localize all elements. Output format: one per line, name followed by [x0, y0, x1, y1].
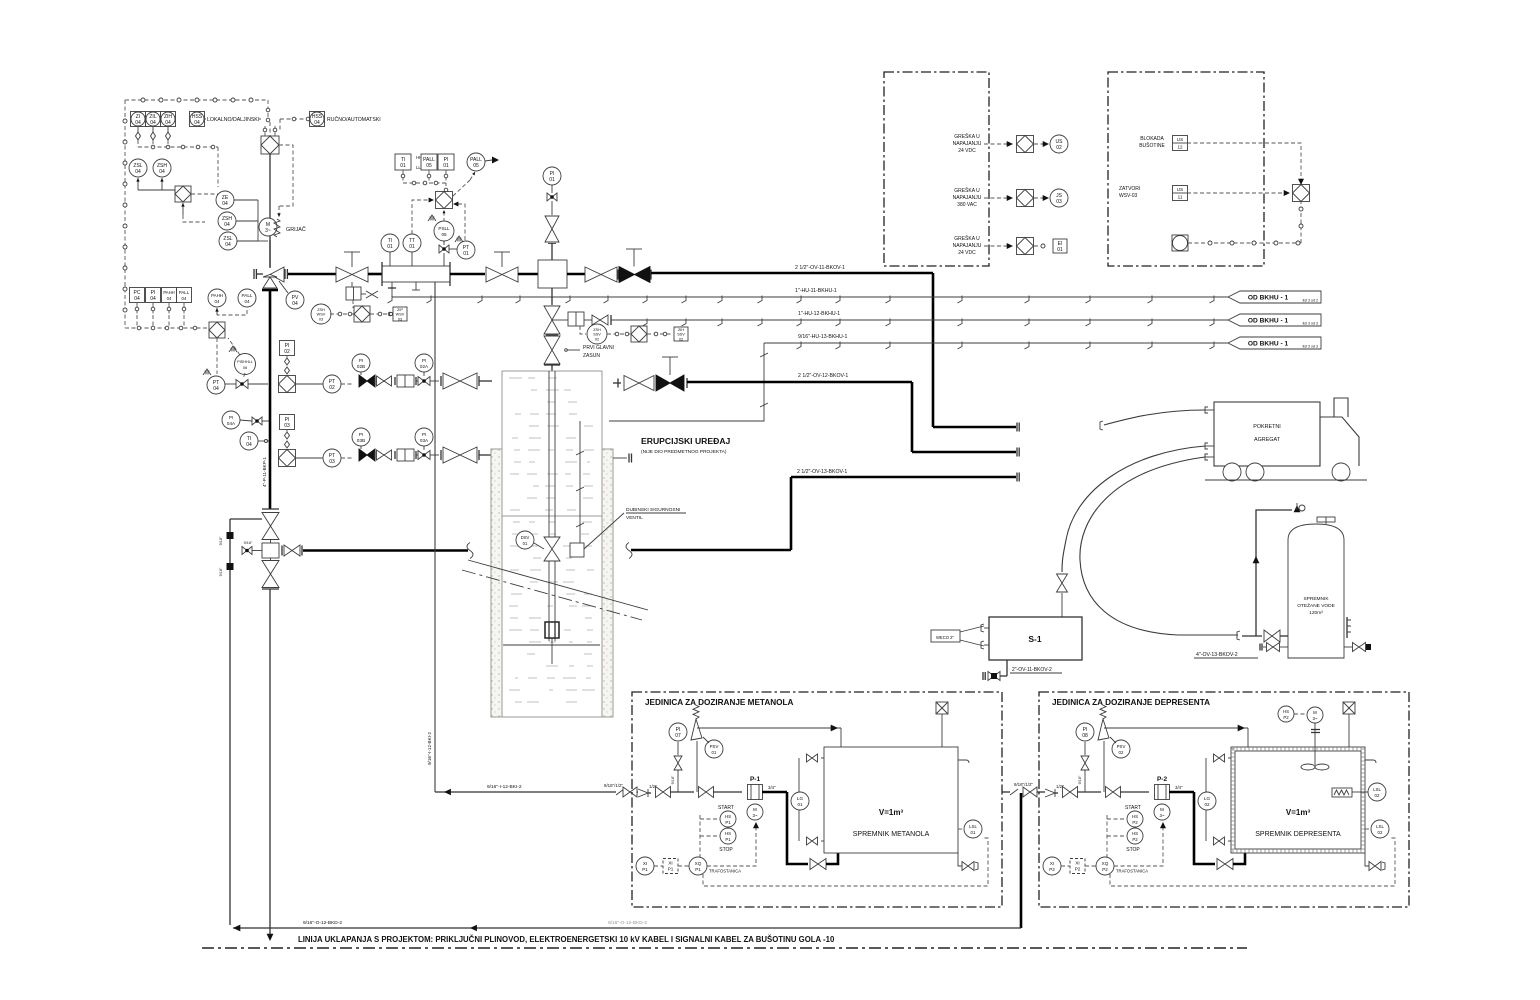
- svg-text:ZATVORI: ZATVORI: [1119, 186, 1140, 192]
- svg-text:HS: HS: [1283, 709, 1289, 714]
- shared instrument box2: [1172, 235, 1188, 251]
- drain line 9/16-O-12-BKD-2: [233, 927, 1021, 929]
- svg-text:02: 02: [284, 349, 290, 355]
- arrow into diamond bottom: [182, 203, 184, 215]
- svg-text:P2: P2: [1132, 820, 1138, 825]
- svg-text:US: US: [1177, 137, 1183, 142]
- lateral right of well: [626, 543, 632, 559]
- svg-text:PT: PT: [329, 379, 335, 385]
- svg-text:2"-OV-11-BKOV-2: 2"-OV-11-BKOV-2: [1012, 667, 1052, 673]
- PI stem DEPRESENTA: [1084, 770, 1086, 792]
- actuated valve OV-11 black: [619, 267, 650, 283]
- W flag 1: [428, 215, 436, 221]
- svg-text:SPREMNIK METANOLA: SPREMNIK METANOLA: [853, 831, 930, 838]
- svg-text:04: 04: [314, 120, 320, 126]
- svg-text:4"-OV-13-BKOV-2: 4"-OV-13-BKOV-2: [1196, 652, 1238, 658]
- svg-text:9/16": 9/16": [244, 541, 253, 545]
- svg-text:PI: PI: [1083, 727, 1088, 733]
- svg-text:01: 01: [712, 750, 717, 755]
- svg-text:SSV: SSV: [677, 333, 685, 337]
- pump discharge DEPRESENTA: [1169, 791, 1194, 794]
- svg-text:02: 02: [1119, 750, 1124, 755]
- svg-text:04: 04: [150, 120, 156, 126]
- svg-text:9/16": 9/16": [671, 775, 675, 784]
- svg-text:04: 04: [167, 296, 172, 301]
- annulus valve top: [227, 532, 234, 539]
- spool drain: [415, 282, 417, 290]
- instrument EI 01 square: [1053, 239, 1067, 253]
- svg-text:05: 05: [426, 163, 432, 169]
- master valve lower: [262, 561, 279, 588]
- hose 1: [1104, 410, 1205, 425]
- svg-text:PI: PI: [550, 171, 555, 177]
- injection line 9/16 vertical: [434, 282, 436, 792]
- control line vertical: [579, 421, 581, 543]
- arrows into ZSL ZSH: [137, 178, 139, 190]
- tank riser vent: [1256, 510, 1292, 636]
- svg-text:01: 01: [387, 244, 393, 250]
- W flag 2: [455, 236, 463, 242]
- svg-text:04: 04: [225, 242, 231, 248]
- svg-text:04A: 04A: [227, 421, 236, 426]
- panel box GRESKA: [884, 72, 989, 266]
- svg-text:HS: HS: [725, 831, 731, 836]
- svg-text:GRIJAČ: GRIJAČ: [286, 226, 306, 233]
- instrument PI 01 top: [543, 167, 561, 185]
- black valve row 03: [341, 457, 353, 459]
- svg-text:P2: P2: [1132, 837, 1138, 842]
- needle valve PI04A: [252, 417, 262, 425]
- capped stub row2 right: [613, 457, 627, 459]
- logic diamond alarm 1: [1017, 136, 1034, 153]
- instrument PT 03: [323, 449, 341, 467]
- signal chain to diamond: [1188, 242, 1301, 244]
- svg-text:01: 01: [797, 802, 803, 807]
- signal chain below squares: [402, 170, 404, 183]
- svg-text:DSV: DSV: [521, 535, 530, 540]
- tank overflow DEPRESENTA: [1365, 760, 1376, 763]
- svg-text:04: 04: [150, 296, 156, 302]
- instrument XI P1 square: [663, 859, 678, 874]
- svg-text:02A: 02A: [420, 364, 429, 369]
- vent flame arrestor DEPRESENTA: [1343, 702, 1355, 714]
- pump discharge METANOLA: [762, 791, 787, 794]
- svg-text:ZE: ZE: [222, 195, 229, 201]
- instrument squares PC PI PAHH PALL 04: [130, 288, 145, 303]
- svg-text:PSLL: PSLL: [438, 226, 450, 231]
- svg-text:list 3 od 3: list 3 od 3: [1303, 345, 1318, 349]
- vent flame arrestor METANOLA: [936, 702, 948, 714]
- svg-text:LOKALNO/DALJINSKI: LOKALNO/DALJINSKI: [207, 117, 259, 123]
- svg-text:P-2: P-2: [1157, 776, 1168, 783]
- offpage arrow PALL05: [485, 160, 492, 161]
- offpage arrow OD BKHU-1 line1: [1228, 291, 1321, 303]
- svg-text:PALL: PALL: [423, 157, 435, 163]
- instrument PT 02: [323, 375, 341, 393]
- instrument XI P1 circle: [636, 857, 654, 875]
- feed line 9/16-I-12-BKI-2: [435, 791, 616, 793]
- svg-text:W: W: [430, 217, 435, 223]
- svg-text:P1: P1: [725, 820, 731, 825]
- signal to JS 03: [1034, 197, 1044, 199]
- instrument PT 04: [207, 376, 225, 394]
- instrument ZSH WSV 03: [311, 304, 331, 324]
- line 9/16-HU-13-BKHU-1: [764, 342, 1228, 344]
- instrument PISHHLL 06: [235, 354, 256, 375]
- row1 right from well: [613, 382, 621, 384]
- svg-text:STOP: STOP: [1126, 847, 1140, 853]
- mixer shaft: [1314, 723, 1316, 765]
- tank SPREMNIK DEPRESENTA: [1231, 747, 1365, 853]
- hose 3: [1080, 457, 1238, 635]
- instrument ZI 04: [131, 112, 146, 127]
- manifold pipe segment 2: [450, 273, 485, 276]
- signal line left vertical: [124, 100, 126, 328]
- arrow PSLL into diamond: [443, 210, 445, 222]
- valve tank inlet DEPRESENTA: [1217, 859, 1233, 870]
- svg-text:02: 02: [1056, 145, 1062, 151]
- PRVI GLAVNI ZASUN upper valve: [551, 288, 553, 305]
- svg-text:120m³: 120m³: [1309, 610, 1323, 616]
- label LOKALNO/DALJINSKI: [206, 113, 259, 122]
- signal to US 02: [1034, 143, 1044, 145]
- instrument ZE 04: [216, 191, 234, 209]
- svg-text:02B: 02B: [357, 364, 365, 369]
- manifold pipe segment 3: [567, 273, 593, 276]
- instrument PT 01: [457, 241, 475, 259]
- signal XQ to motor METANOLA: [707, 826, 756, 866]
- svg-text:P2: P2: [1049, 867, 1055, 872]
- logic diamond alarm 2: [1017, 190, 1034, 207]
- svg-text:PI: PI: [151, 290, 156, 296]
- truck wheels: [1223, 463, 1241, 481]
- svg-text:XI: XI: [1050, 861, 1054, 866]
- svg-text:04: 04: [159, 169, 165, 175]
- signal US11 to diamond: [1187, 192, 1288, 194]
- svg-text:OD BKHU - 1: OD BKHU - 1: [1248, 340, 1289, 347]
- svg-text:TRAFOSTANICA: TRAFOSTANICA: [1116, 869, 1148, 874]
- svg-text:02: 02: [1204, 802, 1210, 807]
- svg-text:01: 01: [463, 251, 469, 257]
- svg-text:US: US: [1177, 187, 1183, 192]
- svg-text:01: 01: [409, 244, 415, 250]
- instrument HSS 04 lokalno: [190, 112, 205, 127]
- svg-text:ZIL: ZIL: [149, 114, 156, 120]
- signal stems into HSS diamond: [264, 126, 266, 136]
- instrument HS P2 mixer: [1278, 706, 1294, 722]
- svg-text:HS: HS: [1132, 814, 1138, 819]
- heater M 3~: [259, 218, 277, 236]
- svg-text:04: 04: [194, 120, 200, 126]
- manifold pipe segment 1: [288, 273, 336, 276]
- svg-text:01: 01: [443, 163, 449, 169]
- separator S-1: [989, 617, 1082, 660]
- svg-text:TI: TI: [247, 436, 251, 442]
- vent valve tank: [1299, 505, 1305, 511]
- svg-text:PALL: PALL: [470, 157, 482, 163]
- svg-text:01: 01: [523, 541, 528, 546]
- tubing: [548, 371, 550, 537]
- svg-text:02: 02: [329, 385, 335, 391]
- logic diamond row 02: [279, 376, 296, 393]
- gate valve feed DEPRESENTA 1: [1063, 787, 1078, 798]
- svg-text:NAPAJANJU: NAPAJANJU: [953, 141, 982, 147]
- gate valve OV12: [624, 376, 654, 391]
- flow spool: [382, 266, 450, 282]
- svg-text:P-1: P-1: [750, 776, 761, 783]
- logic diamond WSV: [354, 306, 370, 322]
- svg-text:XI: XI: [1075, 861, 1079, 866]
- instrument ZSH SSV 02: [587, 324, 607, 344]
- svg-text:V=1m³: V=1m³: [879, 808, 904, 817]
- svg-text:W: W: [457, 238, 462, 244]
- svg-text:WSV: WSV: [396, 313, 405, 317]
- svg-text:9/16"-I-12-BKI-2: 9/16"-I-12-BKI-2: [487, 784, 522, 790]
- svg-text:P2: P2: [1102, 867, 1108, 872]
- level gauge LG 02: [1205, 758, 1207, 841]
- heater coil GRIJAC: [274, 219, 280, 237]
- svg-text:ZSH: ZSH: [157, 163, 167, 169]
- truck connectors: [1205, 407, 1208, 413]
- logic diamond SSV: [607, 333, 630, 335]
- svg-text:RUČNO/AUTOMATSKI: RUČNO/AUTOMATSKI: [327, 116, 381, 123]
- svg-text:04: 04: [246, 442, 252, 448]
- instrument XQ P2: [1096, 857, 1114, 875]
- svg-text:2 1/2"-OV-12-BKOV-1: 2 1/2"-OV-12-BKOV-1: [798, 373, 848, 379]
- gate valve big row 03: [443, 447, 477, 463]
- vent valve vertical: [545, 216, 559, 242]
- signal arrow 2: [984, 197, 1008, 199]
- svg-text:ZIH: ZIH: [678, 328, 684, 332]
- needle valve row 03: [418, 451, 430, 460]
- svg-text:03: 03: [319, 317, 323, 321]
- svg-text:03: 03: [329, 459, 335, 465]
- svg-text:list 3 od 2: list 3 od 2: [1303, 299, 1318, 303]
- instrument PI 03B: [352, 428, 370, 446]
- svg-text:PT: PT: [213, 380, 219, 386]
- svg-text:WSV: WSV: [317, 313, 326, 317]
- instrument ZIH SSV 02 square: [647, 333, 673, 335]
- W flag PISHHLL: [229, 346, 237, 352]
- svg-text:3~: 3~: [265, 228, 271, 234]
- svg-text:PISHHLL: PISHHLL: [237, 360, 253, 364]
- signal TT01 up to diamond: [412, 200, 428, 234]
- signal collect line y144: [138, 146, 218, 148]
- svg-text:02: 02: [595, 337, 599, 341]
- signal diamond-PISHHLL: [216, 338, 218, 374]
- svg-text:LSL: LSL: [969, 824, 977, 829]
- svg-text:W: W: [205, 371, 210, 377]
- svg-text:ZSH: ZSH: [593, 328, 601, 332]
- tank drain left: [1259, 644, 1261, 651]
- svg-text:HSS: HSS: [312, 114, 323, 120]
- mixer propeller: [1301, 764, 1315, 770]
- svg-text:AGREGAT: AGREGAT: [1254, 437, 1281, 443]
- svg-text:3~: 3~: [1159, 813, 1164, 818]
- svg-text:LG: LG: [1204, 796, 1211, 801]
- svg-text:ZSH: ZSH: [317, 308, 325, 312]
- svg-text:M: M: [753, 807, 757, 812]
- main wellhead pipe 4in: [269, 290, 272, 509]
- truck POKRETNI AGREGAT: [1214, 402, 1320, 466]
- choke block: [538, 260, 567, 288]
- instrument JS 03: [1050, 189, 1068, 207]
- svg-text:ZIP: ZIP: [397, 308, 403, 312]
- PI stem METANOLA: [677, 770, 679, 792]
- pipe 2 1/2-OV-13-BKOV-1: [790, 477, 793, 550]
- svg-text:PAHH: PAHH: [211, 293, 223, 298]
- instrument PALL 05 alarm: [467, 153, 485, 171]
- svg-text:PSV: PSV: [710, 744, 719, 749]
- gate valve manifold 3: [585, 267, 617, 282]
- line 1-HU-12-BKHU-1: [552, 319, 568, 321]
- signal collect y328: [125, 327, 209, 329]
- signal stems ZI row down: [137, 127, 139, 132]
- svg-text:08: 08: [1082, 733, 1088, 739]
- svg-text:M: M: [1160, 807, 1164, 812]
- solenoid box WSV: [346, 287, 361, 300]
- svg-text:OD BKHU - 1: OD BKHU - 1: [1248, 317, 1289, 324]
- sample circles PI 03: [285, 432, 290, 439]
- signal HSS right path to heater: [279, 145, 293, 206]
- logic diamond PSLL: [436, 192, 453, 209]
- gate valve big row 02: [443, 373, 477, 389]
- instrument ZSL 04 heater: [219, 232, 237, 250]
- svg-text:START: START: [718, 805, 734, 811]
- svg-text:3~: 3~: [1312, 716, 1317, 721]
- instrument TT 01 circle: [403, 234, 421, 252]
- svg-text:TT: TT: [409, 238, 415, 244]
- instrument LSL 02 upper: [1368, 783, 1386, 801]
- svg-text:03B: 03B: [357, 438, 365, 443]
- signal arrow 1: [984, 143, 1008, 145]
- svg-text:04: 04: [215, 299, 220, 304]
- signal left of ZSH WSV: [383, 313, 392, 315]
- tank SPREMNIK OTEZANE VODE: [1288, 524, 1344, 658]
- offpage arrow OD BKHU-1 line2: [1228, 314, 1321, 326]
- WECO inlet: [931, 630, 960, 642]
- tank drain right: [1344, 646, 1352, 648]
- signal loop bottom METANOLA: [703, 838, 988, 886]
- svg-text:02: 02: [679, 337, 683, 341]
- svg-text:PV: PV: [292, 295, 299, 301]
- svg-text:POKRETNI: POKRETNI: [1253, 424, 1281, 430]
- svg-text:04: 04: [244, 299, 250, 304]
- svg-text:OD BKHU - 1: OD BKHU - 1: [1248, 294, 1289, 301]
- svg-text:04: 04: [135, 169, 141, 175]
- svg-text:TRAFOSTANICA: TRAFOSTANICA: [709, 869, 741, 874]
- well casing outer: [502, 371, 602, 516]
- level switch LSL 01: [958, 828, 964, 830]
- gate valve feed METANOLA 2: [699, 787, 714, 798]
- PSV discharge DEPRESENTA: [1104, 727, 1248, 729]
- svg-text:3/4": 3/4": [768, 785, 776, 790]
- interunit feed: [1002, 791, 1010, 793]
- svg-text:1"-HU-12-BKHU-1: 1"-HU-12-BKHU-1: [798, 311, 840, 317]
- instrument PI 02B: [352, 354, 370, 372]
- valve tank inlet METANOLA: [810, 859, 826, 870]
- pipe to bottom: [269, 589, 271, 936]
- svg-text:START: START: [1125, 805, 1141, 811]
- svg-text:HSS: HSS: [192, 114, 203, 120]
- svg-text:03: 03: [398, 317, 402, 321]
- instrument ZIP WSV 03 square: [393, 307, 407, 321]
- signal to EI 01: [1034, 245, 1044, 247]
- signal to ZIP WSV 03: [370, 313, 392, 315]
- svg-text:PI: PI: [422, 432, 426, 437]
- drain riser right: [1020, 793, 1023, 928]
- svg-text:01: 01: [1057, 247, 1063, 253]
- svg-text:PI: PI: [676, 727, 681, 733]
- instrument ZIH 04: [161, 112, 176, 127]
- instrument PSLL 05: [434, 221, 454, 241]
- strainer row 02: [397, 375, 414, 387]
- control line box: [570, 543, 584, 557]
- drain valve METANOLA: [958, 853, 962, 866]
- svg-text:P1: P1: [668, 867, 674, 872]
- svg-text:JS: JS: [1056, 193, 1063, 199]
- tank SPREMNIK METANOLA: [824, 747, 958, 853]
- signal loop bottom DEPRESENTA: [1110, 838, 1395, 886]
- signal WSV down to diamond: [352, 300, 354, 308]
- well casing walls: [491, 449, 502, 717]
- instrument PI 03A: [415, 428, 433, 446]
- svg-text:04: 04: [135, 120, 141, 126]
- svg-text:EI: EI: [1058, 241, 1063, 247]
- instrument PV 04: [286, 291, 304, 309]
- instrument PI 08: [1076, 723, 1094, 741]
- wellhead vertical pipe top: [269, 240, 271, 268]
- svg-text:PT: PT: [463, 245, 469, 251]
- well fluid dashes: [509, 377, 522, 379]
- svg-text:11: 11: [1178, 195, 1183, 200]
- svg-text:US: US: [1056, 139, 1064, 145]
- svg-text:12: 12: [1177, 145, 1183, 150]
- svg-text:PRVI GLAVNI: PRVI GLAVNI: [583, 345, 614, 351]
- svg-text:STOP: STOP: [719, 847, 733, 853]
- motor M pump DEPRESENTA: [1154, 804, 1170, 820]
- svg-text:04: 04: [224, 222, 230, 228]
- downhole safety valve DSV: [544, 537, 560, 561]
- drain valve DEPRESENTA: [1365, 853, 1369, 866]
- needle valve PT04: [236, 380, 248, 389]
- svg-text:NAPAJANJU: NAPAJANJU: [953, 195, 982, 201]
- svg-text:PI: PI: [285, 417, 290, 423]
- svg-text:WSV-03: WSV-03: [1119, 193, 1138, 199]
- instrument US 11: [1173, 186, 1188, 201]
- svg-text:03: 03: [284, 423, 290, 429]
- svg-text:P1: P1: [695, 867, 701, 872]
- svg-text:DUBINSKI SIGURNOSNI: DUBINSKI SIGURNOSNI: [626, 507, 680, 513]
- svg-text:04: 04: [182, 296, 187, 301]
- instrument PI 03 square: [280, 415, 295, 430]
- tank overflow METANOLA: [958, 760, 969, 763]
- svg-text:JEDINICA ZA DOZIRANJE METANOL: JEDINICA ZA DOZIRANJE METANOLA: [645, 698, 794, 707]
- signal arrow 3: [984, 245, 1008, 247]
- mixer motor depressant: [1307, 707, 1323, 723]
- truck cab: [1320, 417, 1359, 466]
- sample circles PI 02: [285, 358, 290, 365]
- svg-text:LL: LL: [416, 165, 421, 170]
- signal XQ to motor DEPRESENTA: [1114, 826, 1163, 866]
- svg-text:VENTIL: VENTIL: [626, 515, 643, 521]
- instrument XI P2 square: [1070, 859, 1085, 874]
- svg-text:ZSH: ZSH: [222, 216, 232, 222]
- svg-text:2 1/2"-OV-13-BKOV-1: 2 1/2"-OV-13-BKOV-1: [797, 469, 847, 475]
- svg-text:04: 04: [222, 201, 228, 207]
- svg-text:GREŠKA U: GREŠKA U: [954, 133, 980, 140]
- svg-text:9/16"/1/2": 9/16"/1/2": [1014, 782, 1033, 787]
